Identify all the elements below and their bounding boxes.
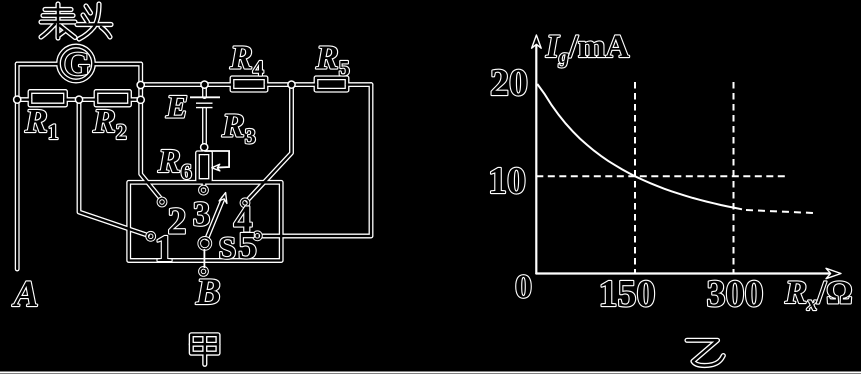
svg-text:Rx/Ω: Rx/Ω <box>784 275 853 315</box>
svg-text:A: A <box>12 274 39 315</box>
svg-text:3: 3 <box>193 195 211 234</box>
svg-text:5: 5 <box>238 225 257 267</box>
svg-text:150: 150 <box>599 273 656 315</box>
svg-text:300: 300 <box>707 273 764 315</box>
svg-text:E: E <box>165 90 188 126</box>
svg-text:B: B <box>195 272 221 313</box>
svg-text:2: 2 <box>168 201 187 243</box>
svg-text:0: 0 <box>515 269 532 306</box>
svg-text:Ig/mA: Ig/mA <box>545 29 630 68</box>
svg-text:G: G <box>64 46 90 83</box>
svg-text:10: 10 <box>488 160 526 202</box>
svg-text:20: 20 <box>490 62 528 104</box>
